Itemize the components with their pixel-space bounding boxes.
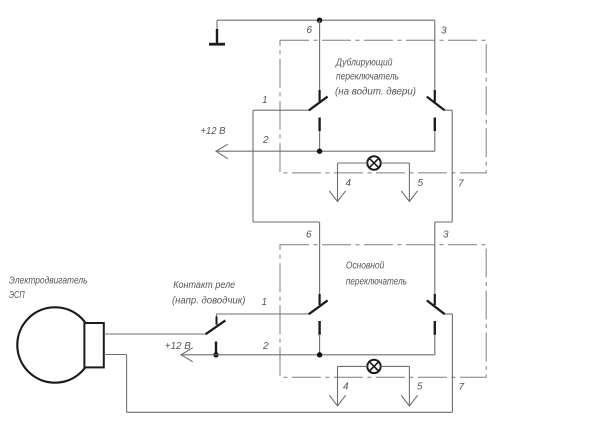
contact: pin 6 fixed contact (top switch)	[319, 90, 321, 102]
wire: pin 1 (top switch)	[253, 109, 309, 111]
arrow: +12V feed (bottom)	[181, 348, 193, 362]
lamp HL2 (bottom illumination)	[367, 360, 380, 373]
switch blade SA2.2 (bottom right)	[427, 300, 445, 314]
svg-text:Дублирующий: Дублирующий	[335, 57, 393, 69]
wire: blade to riser (bottom right)	[445, 313, 453, 315]
wire: top ground bus	[217, 19, 435, 21]
wire: jog to pin 6 of lower block	[253, 221, 320, 223]
wire: +12V bus (bottom, pin 2)	[181, 354, 435, 356]
wire: top right blade to pin 7 drop	[445, 109, 453, 111]
svg-text:6: 6	[307, 25, 313, 36]
wire: lamp leads (bottom)	[338, 365, 410, 367]
svg-text:переключатель: переключатель	[336, 72, 399, 83]
contact: open contact stub right (bottom switch)	[434, 321, 436, 335]
svg-text:2: 2	[262, 135, 269, 146]
node: junction stub/bus (top)	[317, 149, 322, 154]
wire: bottom return run	[127, 411, 453, 413]
svg-text:Основной: Основной	[346, 261, 385, 272]
wire: pin 6 lead (bottom switch)	[319, 222, 321, 295]
wire: +12V bus (top, pin 2)	[216, 150, 435, 152]
contact: relay open stub	[215, 342, 217, 355]
relay blade	[206, 320, 226, 334]
contact: pin 6 fixed contact (bottom switch)	[319, 294, 321, 305]
svg-text:Электродвигатель: Электродвигатель	[9, 275, 88, 286]
contact: open contact stub right (top switch)	[434, 118, 436, 132]
wire: jog to pin 3 of lower block	[435, 221, 452, 223]
node: junction relay stub / +12V bus (bottom)	[213, 352, 218, 357]
wire: pin 4 drop (bottom)	[337, 366, 339, 405]
svg-text:ЭСП: ЭСП	[9, 290, 25, 301]
wire: pin 7 vertical (top switch)	[451, 110, 453, 222]
wire: right riser to bottom switch blade	[451, 314, 453, 412]
svg-text:3: 3	[441, 26, 447, 37]
relay contact K1	[216, 314, 218, 318]
wire: pin 5 drop (bottom)	[408, 366, 410, 405]
contact: pin 3 fixed contact (bottom switch)	[434, 294, 436, 305]
node: junction of ground bus and pin 6	[317, 18, 322, 23]
switch blade SA1.1 (top left)	[309, 97, 328, 111]
motor brush block	[84, 323, 103, 367]
wire: pin 6 lead (top switch)	[319, 20, 321, 91]
svg-text:3: 3	[443, 229, 449, 240]
wire: pin 3 lead (bottom switch)	[434, 222, 436, 295]
wire: lower left drop	[126, 355, 128, 413]
svg-text:4: 4	[346, 178, 352, 189]
ground	[216, 20, 218, 30]
arrow: +12V feed (top)	[216, 144, 228, 159]
svg-text:1: 1	[262, 297, 268, 308]
node: junction stub/bus (bottom)	[317, 352, 322, 357]
motor M1 (window motor)	[17, 307, 92, 382]
contact: open contact stub left (bottom switch)	[318, 321, 320, 335]
wire: stub to +12V bus (top left)	[319, 131, 321, 151]
arrow: pin 4 (bottom)	[329, 395, 345, 406]
wire: stub to +12V bus (bottom right)	[434, 335, 436, 355]
wire: pin 3 lead (top switch)	[434, 20, 436, 91]
svg-text:2: 2	[262, 341, 269, 352]
svg-text:5: 5	[418, 178, 424, 189]
svg-text:переключатель: переключатель	[346, 276, 407, 287]
wire: motor lower terminal	[104, 354, 127, 356]
svg-text:1: 1	[262, 95, 268, 106]
lamp HL1 (top illumination)	[367, 156, 380, 169]
arrow: pin 5 (bottom)	[401, 395, 417, 406]
svg-text:4: 4	[343, 382, 349, 393]
svg-text:+12 В: +12 В	[165, 341, 191, 352]
svg-text:(напр. доводчик): (напр. доводчик)	[172, 296, 245, 307]
switch blade SA2.1 (bottom left)	[309, 300, 328, 314]
svg-text:(на водит. двери): (на водит. двери)	[335, 87, 416, 98]
svg-text:+12 В: +12 В	[201, 126, 226, 137]
wire: motor upper terminal to relay contact	[104, 333, 206, 335]
svg-text:7: 7	[458, 179, 464, 190]
svg-text:6: 6	[306, 229, 312, 240]
arrow: pin 5 (top)	[401, 191, 417, 202]
arrow: pin 4 (top)	[329, 191, 345, 202]
contact: open contact stub left (top switch)	[318, 118, 320, 132]
enclosure box: main switch (dash-dot)	[280, 245, 486, 378]
svg-text:5: 5	[417, 382, 423, 393]
switch blade SA1.2 (top right)	[427, 97, 445, 111]
contact: pin 3 fixed contact (top switch)	[434, 90, 436, 102]
wire: lamp leads (top)	[338, 162, 410, 164]
svg-text:7: 7	[459, 382, 465, 393]
wire: stub to +12V bus (bottom left)	[319, 335, 321, 355]
wire: pin 1 (bottom switch)	[217, 313, 310, 315]
wire: pin 5 drop (top)	[408, 163, 410, 201]
wire: left vertical to lower block	[252, 110, 254, 222]
wire: pin 4 drop (top)	[337, 163, 339, 201]
svg-text:Контакт реле: Контакт реле	[173, 280, 235, 291]
wire: stub to +12V bus (top right)	[434, 131, 436, 151]
enclosure box: duplicating switch (dash-dot)	[280, 40, 486, 173]
